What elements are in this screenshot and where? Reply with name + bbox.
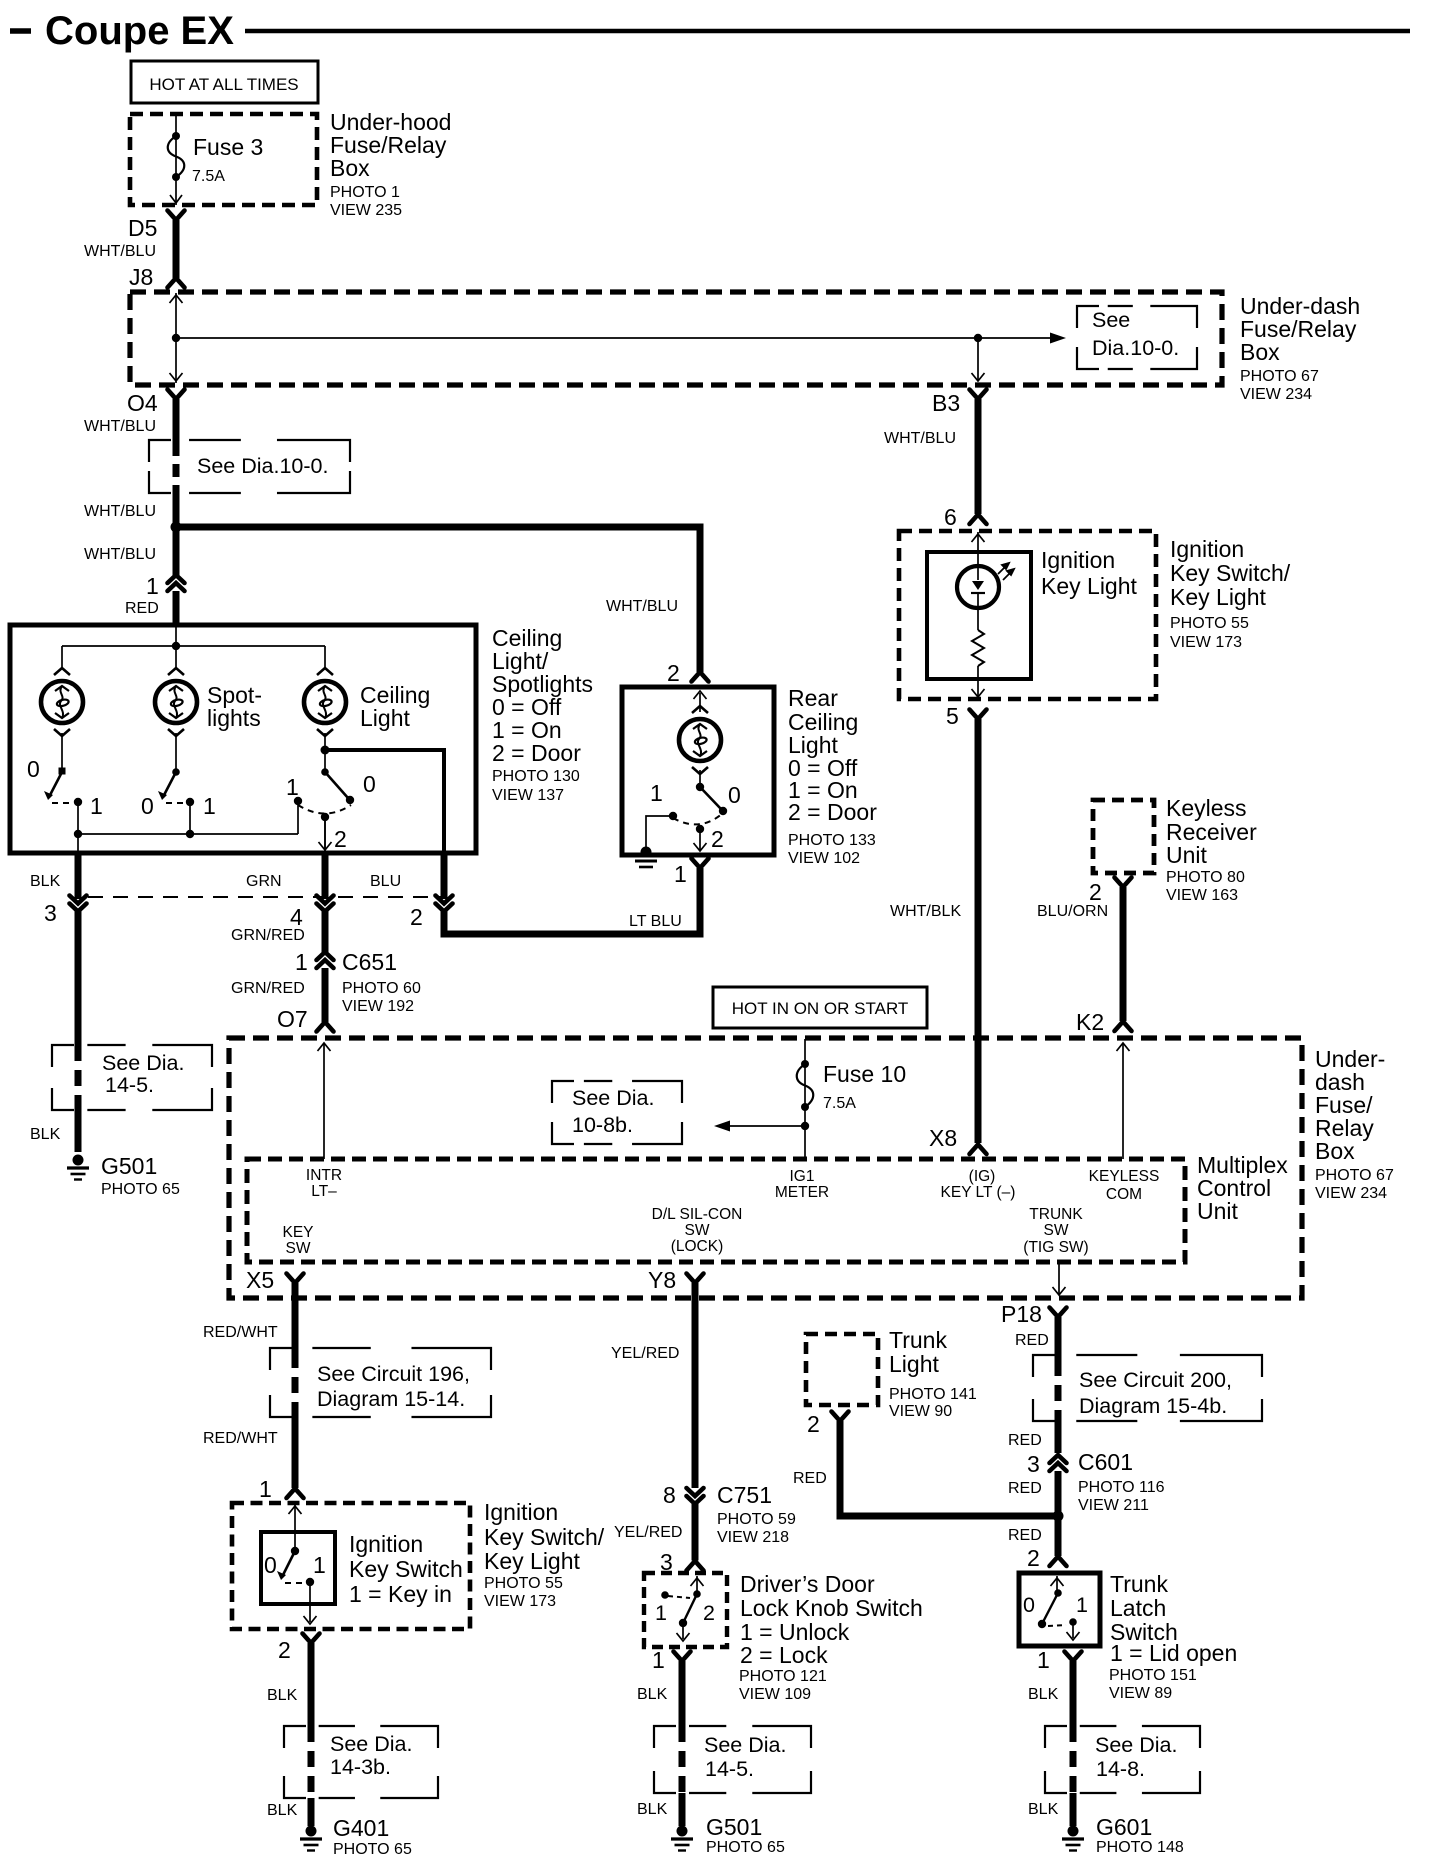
svg-text:G401: G401 [333, 1815, 389, 1841]
svg-text:X5: X5 [246, 1267, 274, 1293]
svg-text:METER: METER [775, 1184, 829, 1201]
svg-text:1: 1 [90, 793, 103, 819]
wire through See box [75, 1045, 82, 1110]
ceiling light bulb [304, 668, 346, 736]
svg-text:BLK: BLK [1028, 1686, 1059, 1703]
spotlight bulb 1 [41, 668, 83, 736]
svg-text:PHOTO 130: PHOTO 130 [492, 768, 580, 785]
svg-text:0: 0 [27, 756, 40, 782]
svg-text:SW: SW [685, 1222, 710, 1239]
connector J8 [168, 278, 185, 288]
connector 3 [70, 896, 87, 904]
wire YEL/RED [692, 1283, 699, 1488]
svg-text:GRN/RED: GRN/RED [231, 980, 305, 997]
INTR LT line [323, 1044, 325, 1159]
svg-text:BLK: BLK [1028, 1801, 1059, 1818]
ground rear light [641, 847, 652, 858]
svg-text:Diagram 15-4b.: Diagram 15-4b. [1079, 1394, 1227, 1418]
svg-text:1: 1 [203, 793, 216, 819]
rear ceiling light box [622, 687, 774, 855]
title rule [245, 29, 1410, 34]
svg-text:O4: O4 [127, 390, 158, 416]
svg-text:lights: lights [207, 705, 261, 731]
svg-text:0: 0 [141, 793, 154, 819]
HOT AT ALL TIMES box [131, 61, 318, 103]
pos2 line to box edge [324, 817, 326, 853]
under-hood fuse/relay box [130, 114, 317, 205]
svg-text:14-5.: 14-5. [705, 1757, 754, 1781]
wire BLK [679, 1661, 686, 1726]
wire RED trunk light [840, 1421, 1058, 1516]
svg-text:1: 1 [655, 1601, 667, 1625]
svg-text:C651: C651 [342, 949, 397, 975]
svg-text:BLK: BLK [267, 1687, 298, 1704]
svg-text:Ignition: Ignition [1041, 547, 1115, 573]
svg-text:BLK: BLK [637, 1801, 668, 1818]
svg-text:1: 1 [652, 1647, 665, 1673]
svg-text:VIEW 90: VIEW 90 [889, 1403, 952, 1420]
svg-text:YEL/RED: YEL/RED [611, 1345, 679, 1362]
svg-text:(LOCK): (LOCK) [671, 1238, 724, 1255]
fuse 10 [801, 1060, 809, 1068]
wire WHT/BLU [173, 493, 180, 527]
spotlight bulb 2 [155, 668, 197, 736]
svg-text:BLK: BLK [30, 1126, 61, 1143]
svg-text:See Circuit 196,: See Circuit 196, [317, 1362, 470, 1386]
svg-text:See Dia.: See Dia. [704, 1733, 786, 1757]
svg-text:(IG): (IG) [969, 1168, 996, 1185]
svg-text:Latch: Latch [1110, 1595, 1166, 1621]
svg-text:PHOTO 59: PHOTO 59 [717, 1511, 796, 1528]
See Dia.10-0 box right [1077, 306, 1197, 369]
switch spotlight 2 [175, 733, 177, 770]
multiplex control unit box [247, 1159, 1185, 1262]
ground G501 [73, 1155, 84, 1166]
connector D5 [168, 211, 185, 221]
svg-text:C751: C751 [717, 1482, 772, 1508]
wire RED [1055, 1516, 1062, 1556]
svg-text:2: 2 [807, 1411, 820, 1437]
connector key light pin 6 [970, 515, 987, 525]
line to See Dia 10-8b [718, 1125, 805, 1127]
switch common link [78, 833, 298, 835]
connector door switch pin 1 [674, 1652, 691, 1662]
svg-text:6: 6 [944, 504, 957, 530]
svg-text:VIEW 102: VIEW 102 [788, 850, 860, 867]
svg-text:D/L SIL-CON: D/L SIL-CON [652, 1206, 743, 1223]
svg-text:LT BLU: LT BLU [629, 913, 682, 930]
HOT IN ON OR START box [713, 987, 927, 1028]
driver's door lock knob switch [696, 1576, 698, 1593]
connector rear light pin 1 [692, 859, 709, 869]
svg-text:SW: SW [1044, 1222, 1069, 1239]
svg-text:Driver’s Door: Driver’s Door [740, 1571, 875, 1597]
ground G601 [1068, 1826, 1079, 1837]
svg-text:See Dia.: See Dia. [102, 1051, 184, 1075]
svg-text:VIEW 234: VIEW 234 [1315, 1185, 1387, 1202]
ignition key switch [291, 1547, 299, 1555]
svg-text:D5: D5 [128, 215, 157, 241]
svg-text:GRN: GRN [246, 873, 282, 890]
See Dia. 14-8 box [1045, 1726, 1200, 1793]
svg-text:PHOTO 65: PHOTO 65 [101, 1181, 180, 1198]
svg-text:BLU/ORN: BLU/ORN [1037, 903, 1108, 920]
svg-text:PHOTO 67: PHOTO 67 [1240, 368, 1319, 385]
svg-text:PHOTO 67: PHOTO 67 [1315, 1167, 1394, 1184]
See Circuit 200 box [1033, 1355, 1262, 1421]
connector 4 [317, 896, 334, 904]
svg-text:G601: G601 [1096, 1814, 1152, 1840]
svg-text:WHT/BLK: WHT/BLK [890, 903, 961, 920]
wire through See box [1070, 1726, 1077, 1793]
internal line to See Dia.10-0 [176, 337, 1056, 339]
KEYLESS COM line [1122, 1044, 1124, 1159]
connector 2 [436, 896, 453, 904]
wire BLK [308, 1643, 315, 1726]
svg-text:Ignition: Ignition [1170, 536, 1244, 562]
connector rear light pin 2 [692, 672, 709, 682]
ignition key switch/key light box [899, 531, 1156, 699]
See Dia. 14-3b box [284, 1726, 438, 1798]
svg-text:RED/WHT: RED/WHT [203, 1324, 278, 1341]
svg-text:HOT IN ON OR START: HOT IN ON OR START [732, 999, 909, 1018]
svg-text:1: 1 [674, 861, 687, 887]
wire RED [1055, 1317, 1062, 1360]
svg-text:7.5A: 7.5A [823, 1095, 856, 1112]
svg-text:See Dia.: See Dia. [572, 1086, 654, 1110]
ignition key light inner box [927, 552, 1031, 679]
wire RED/WHT [292, 1283, 299, 1352]
junction node [171, 522, 182, 533]
svg-text:VIEW 192: VIEW 192 [342, 998, 414, 1015]
See Circuit 196 box [270, 1348, 491, 1417]
See Dia. 10-8b box [552, 1081, 682, 1144]
wire through See box [308, 1726, 315, 1798]
svg-text:PHOTO 133: PHOTO 133 [788, 832, 876, 849]
wire GRN/RED [322, 911, 329, 952]
wire BLU / LT BLU loop [444, 868, 700, 934]
svg-text:Box: Box [1240, 339, 1280, 365]
connector B3 [970, 390, 987, 400]
drop to ceiling bulb [324, 646, 326, 667]
connector P18 [1050, 1308, 1067, 1318]
svg-text:14-8.: 14-8. [1096, 1757, 1145, 1781]
connector O4 [168, 390, 185, 400]
svg-text:Key Switch/: Key Switch/ [484, 1524, 605, 1550]
svg-text:Fuse 3: Fuse 3 [193, 134, 263, 160]
door-position feed to BLU [325, 750, 444, 853]
svg-text:J8: J8 [129, 264, 153, 290]
svg-text:Ignition: Ignition [349, 1531, 423, 1557]
connector key switch pin 2 [303, 1634, 320, 1644]
svg-text:LT–: LT– [311, 1183, 337, 1200]
svg-text:KEY: KEY [282, 1224, 313, 1241]
svg-text:C601: C601 [1078, 1449, 1133, 1475]
wire RED [1055, 1418, 1062, 1453]
svg-text:RED: RED [1008, 1527, 1042, 1544]
key switch inner box [261, 1532, 335, 1604]
svg-text:Coupe EX: Coupe EX [45, 9, 234, 53]
svg-text:Rear: Rear [788, 685, 838, 711]
driver's door lock knob switch box [644, 1573, 727, 1647]
junction node [1053, 1511, 1064, 1522]
svg-text:VIEW 211: VIEW 211 [1078, 1497, 1149, 1514]
trunk latch switch box [1019, 1573, 1100, 1646]
svg-text:2: 2 [711, 826, 724, 852]
svg-text:K2: K2 [1076, 1009, 1104, 1035]
wire RED/WHT [292, 1413, 299, 1488]
svg-text:PHOTO 80: PHOTO 80 [1166, 869, 1245, 886]
connector O7 [317, 1022, 334, 1032]
LED light arrows [998, 563, 1014, 580]
svg-text:PHOTO 60: PHOTO 60 [342, 980, 421, 997]
connector trunk light pin 2 [832, 1412, 849, 1422]
svg-text:2: 2 [667, 660, 680, 686]
svg-text:Lock Knob Switch: Lock Knob Switch [740, 1595, 923, 1621]
svg-text:WHT/BLU: WHT/BLU [84, 418, 156, 435]
svg-text:Fuse 10: Fuse 10 [823, 1061, 906, 1087]
internal line to B3 [977, 338, 979, 381]
svg-text:VIEW 109: VIEW 109 [739, 1686, 811, 1703]
svg-text:1: 1 [1076, 1593, 1088, 1617]
fuse 3 [172, 132, 180, 140]
svg-text:1: 1 [313, 1552, 326, 1578]
svg-text:Key Light: Key Light [484, 1548, 581, 1574]
svg-text:RED/WHT: RED/WHT [203, 1430, 278, 1447]
wire RED [1055, 1471, 1062, 1513]
svg-text:1 = Lid open: 1 = Lid open [1110, 1640, 1237, 1666]
svg-text:Y8: Y8 [648, 1267, 676, 1293]
svg-text:See Dia.: See Dia. [330, 1732, 412, 1756]
connector key switch pin 1 [287, 1489, 304, 1499]
svg-text:COM: COM [1106, 1186, 1142, 1203]
svg-text:O7: O7 [277, 1006, 308, 1032]
svg-text:2: 2 [410, 904, 423, 930]
svg-text:IG1: IG1 [790, 1168, 815, 1185]
ceiling light/spotlights box [10, 625, 476, 853]
rear light switch [699, 770, 701, 786]
trunk latch switch [1056, 1576, 1058, 1592]
svg-text:PHOTO 116: PHOTO 116 [1078, 1479, 1165, 1496]
wire RED to ceiling light box [173, 591, 180, 627]
svg-text:VIEW 235: VIEW 235 [330, 202, 402, 219]
switch ceiling light [324, 733, 326, 748]
wire BLK [679, 1793, 686, 1826]
svg-text:TRUNK: TRUNK [1029, 1206, 1083, 1223]
svg-text:VIEW 89: VIEW 89 [1109, 1685, 1172, 1702]
See Dia.10-0 box left [149, 440, 350, 493]
wire BLU/ORN [1120, 887, 1127, 1021]
svg-text:2: 2 [703, 1601, 715, 1625]
svg-text:0: 0 [728, 782, 741, 808]
svg-text:1: 1 [146, 573, 159, 599]
svg-text:Keyless: Keyless [1166, 795, 1247, 821]
fuse 10 feed [804, 1039, 806, 1159]
svg-text:RED: RED [1008, 1480, 1042, 1497]
svg-text:VIEW 137: VIEW 137 [492, 787, 564, 804]
wire YEL/RED [692, 1504, 699, 1561]
wire O4 WHT/BLU [173, 399, 180, 443]
wire GRN/RED to O7 [322, 968, 329, 1022]
svg-text:PHOTO 1: PHOTO 1 [330, 184, 400, 201]
ground G401 [306, 1826, 317, 1837]
svg-text:3: 3 [1027, 1451, 1040, 1477]
trunk sw exit line [1058, 1262, 1060, 1294]
connector C751 pin 8 [687, 1488, 704, 1496]
svg-text:14-5.: 14-5. [105, 1073, 154, 1097]
wire BLK [75, 911, 82, 1045]
svg-text:14-3b.: 14-3b. [330, 1755, 391, 1779]
under-dash fuse/relay box 2 [229, 1038, 1302, 1298]
svg-text:2 = Door: 2 = Door [788, 799, 877, 825]
svg-text:WHT/BLU: WHT/BLU [606, 598, 678, 615]
svg-text:SW: SW [286, 1240, 311, 1257]
svg-text:WHT/BLU: WHT/BLU [84, 546, 156, 563]
svg-text:B3: B3 [932, 390, 960, 416]
svg-text:0: 0 [1023, 1593, 1035, 1617]
connector Y8 [687, 1274, 704, 1284]
rear ceiling light bulb [679, 706, 721, 774]
svg-text:KEY LT (–): KEY LT (–) [941, 1184, 1016, 1201]
svg-text:RED: RED [1008, 1432, 1042, 1449]
svg-text:YEL/RED: YEL/RED [614, 1524, 682, 1541]
svg-text:RED: RED [125, 600, 159, 617]
svg-text:Light: Light [889, 1351, 939, 1377]
connector key light pin 5 [970, 710, 987, 720]
svg-text:Unit: Unit [1197, 1198, 1239, 1224]
wire through See box [1055, 1360, 1062, 1418]
svg-text:Key Light: Key Light [1170, 584, 1267, 610]
svg-text:Box: Box [1315, 1138, 1355, 1164]
svg-text:PHOTO 55: PHOTO 55 [1170, 615, 1249, 632]
svg-text:BLK: BLK [637, 1686, 668, 1703]
internal line J8-O4 [175, 293, 177, 383]
wire BLU pin 2 [441, 853, 448, 899]
See Dia. 14-5 box left [52, 1045, 212, 1110]
wire GRN pin 4 [322, 853, 329, 899]
wire BLK pin 3 [75, 853, 82, 899]
internal bus [62, 645, 325, 647]
svg-text:G501: G501 [706, 1814, 762, 1840]
svg-text:WHT/BLU: WHT/BLU [884, 430, 956, 447]
See Dia. 14-5 box middle [654, 1726, 811, 1793]
svg-text:Dia.10-0.: Dia.10-0. [1092, 336, 1179, 360]
svg-text:PHOTO 141: PHOTO 141 [889, 1386, 977, 1403]
wire through See box [292, 1352, 299, 1413]
connector C651 pin 1 [317, 952, 334, 960]
svg-text:VIEW 218: VIEW 218 [717, 1529, 789, 1546]
svg-text:10-8b.: 10-8b. [572, 1113, 633, 1137]
svg-text:Trunk: Trunk [889, 1327, 947, 1353]
wire BLK [1070, 1793, 1077, 1826]
svg-text:GRN/RED: GRN/RED [231, 927, 305, 944]
svg-text:8: 8 [663, 1482, 676, 1508]
internal feed [175, 627, 177, 667]
svg-text:Trunk: Trunk [1110, 1571, 1168, 1597]
wire to rear ceiling light WHT/BLU [176, 527, 700, 672]
svg-text:1: 1 [286, 774, 299, 800]
junction [172, 334, 180, 342]
svg-text:0: 0 [363, 771, 376, 797]
svg-text:RED: RED [793, 1470, 827, 1487]
connector trunk latch pin 1 [1065, 1652, 1082, 1662]
svg-text:INTR: INTR [306, 1167, 342, 1184]
svg-text:2 = Door: 2 = Door [492, 740, 581, 766]
connector keyless pin 2 [1115, 878, 1132, 888]
connector X5 [287, 1274, 304, 1284]
svg-text:PHOTO 121: PHOTO 121 [739, 1668, 827, 1685]
svg-text:VIEW 234: VIEW 234 [1240, 386, 1312, 403]
svg-text:Key Switch: Key Switch [349, 1556, 463, 1582]
drop to spotlight 1 [61, 646, 63, 667]
ignition key switch box [232, 1503, 470, 1629]
wire 5-X8 WHT/BLK [975, 719, 982, 1143]
wire BLK [308, 1798, 315, 1826]
wire BLK [75, 1110, 82, 1152]
svg-text:2: 2 [278, 1637, 291, 1663]
svg-text:PHOTO 65: PHOTO 65 [706, 1839, 785, 1856]
connector X8 [970, 1145, 987, 1155]
svg-text:Key Switch/: Key Switch/ [1170, 560, 1291, 586]
svg-text:P18: P18 [1001, 1301, 1042, 1327]
keyless receiver unit box [1093, 800, 1154, 873]
svg-text:X8: X8 [929, 1125, 957, 1151]
svg-text:2: 2 [1027, 1545, 1040, 1571]
connector C601 pin 3 [1050, 1455, 1067, 1463]
connector door switch pin 3 [687, 1561, 704, 1571]
svg-text:See Circuit 200,: See Circuit 200, [1079, 1368, 1232, 1392]
connector trunk latch pin 2 [1050, 1557, 1067, 1567]
svg-text:KEYLESS: KEYLESS [1089, 1168, 1160, 1185]
svg-text:2: 2 [334, 826, 347, 852]
resistor [972, 630, 984, 666]
wire WHT/BLU down from junction [173, 527, 180, 577]
svg-text:BLK: BLK [267, 1802, 298, 1819]
under-dash fuse/relay box 1 [130, 292, 1222, 385]
svg-text:BLK: BLK [30, 873, 61, 890]
svg-text:1: 1 [295, 949, 308, 975]
wire to ground [646, 816, 673, 850]
svg-text:Diagram 15-14.: Diagram 15-14. [317, 1387, 465, 1411]
svg-text:See Dia.10-0.: See Dia.10-0. [197, 454, 328, 478]
svg-text:WHT/BLU: WHT/BLU [84, 243, 156, 260]
svg-text:1: 1 [650, 780, 663, 806]
wire D5-J8 WHT/BLU [173, 220, 180, 278]
svg-text:Box: Box [330, 155, 370, 181]
svg-text:Key Light: Key Light [1041, 573, 1138, 599]
svg-text:1 = Key in: 1 = Key in [349, 1581, 452, 1607]
LED ignition key light [957, 566, 999, 608]
title dash [10, 28, 31, 34]
svg-text:2: 2 [1089, 879, 1102, 905]
svg-text:HOT AT ALL TIMES: HOT AT ALL TIMES [149, 75, 298, 94]
wire through See box [173, 443, 180, 493]
svg-text:(TIG SW): (TIG SW) [1023, 1239, 1088, 1256]
ground G501 middle [677, 1826, 688, 1837]
svg-text:PHOTO 55: PHOTO 55 [484, 1575, 563, 1592]
svg-text:3: 3 [44, 900, 57, 926]
svg-text:WHT/BLU: WHT/BLU [84, 503, 156, 520]
svg-text:Unit: Unit [1166, 842, 1208, 868]
wire B3 WHT/BLU [975, 399, 982, 514]
svg-text:5: 5 [946, 703, 959, 729]
svg-text:See Dia.: See Dia. [1095, 1733, 1177, 1757]
connector dashed line [88, 896, 445, 898]
svg-text:BLU: BLU [370, 873, 401, 890]
switch spotlight 1 [61, 733, 63, 768]
connector K2 [1115, 1022, 1132, 1032]
svg-text:G501: G501 [101, 1153, 157, 1179]
